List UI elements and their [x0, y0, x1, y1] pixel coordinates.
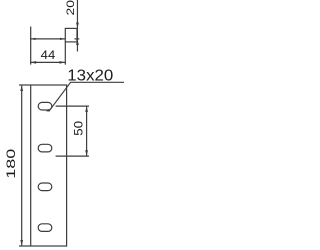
180 down arrow [20, 240, 23, 245]
50 bottom extension [56, 155, 89, 157]
leader arrow [46, 109, 50, 112]
180 up arrow [20, 86, 23, 91]
20 dimension line [76, 0, 78, 52]
20 down arrow [76, 23, 79, 28]
50 top extension [56, 105, 89, 107]
44 right extension [64, 42, 66, 65]
slot 1 [38, 102, 52, 110]
slot 4 [38, 224, 52, 232]
rail bottom edge left extension [19, 245, 31, 247]
44 arrow left [31, 61, 36, 64]
box top stub to dim line [76, 27, 79, 29]
profile web [30, 38, 65, 40]
20 up arrow [76, 40, 79, 45]
180 dimension line [21, 86, 23, 246]
profile right box [65, 28, 77, 42]
rail outline [31, 85, 67, 246]
50 down arrow [85, 150, 88, 155]
svg-text:20: 20 [65, 0, 77, 16]
slot 2 [38, 144, 52, 152]
profile left leg + 44 left extension [30, 27, 32, 65]
slot 3 [38, 183, 52, 191]
web arrow left [31, 38, 36, 40]
44 dimension line [30, 61, 65, 63]
svg-text:50: 50 [72, 120, 85, 135]
20 bottom ref stub [75, 38, 80, 40]
leader line 13x20 [49, 82, 124, 111]
50 up arrow [85, 107, 88, 112]
50 dimension line [86, 106, 88, 156]
rail top edge left extension [19, 84, 31, 86]
svg-text:13x20: 13x20 [67, 68, 113, 85]
44 arrow right [60, 61, 65, 64]
web arrow right [60, 38, 65, 40]
svg-text:44: 44 [41, 48, 56, 62]
svg-text:180: 180 [4, 148, 18, 178]
